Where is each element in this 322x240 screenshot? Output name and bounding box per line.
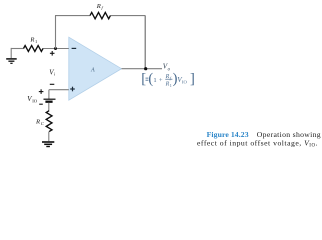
- svg-text:IO: IO: [32, 99, 38, 104]
- battery VIO plate + (long): [44, 98, 56, 100]
- wire: corner down to battery: [48, 90, 50, 99]
- battery VIO plate - (short thick): [45, 101, 52, 103]
- svg-text:i: i: [54, 72, 56, 77]
- resistor RC: [46, 111, 52, 132]
- svg-text:[: [: [141, 71, 146, 87]
- wire: battery to RC: [48, 103, 50, 111]
- svg-text:effect of input offset voltage: effect of input offset voltage, VIO.: [197, 138, 318, 148]
- svg-text:C: C: [41, 121, 45, 126]
- svg-text:A: A: [90, 68, 95, 74]
- Vi polarity +: [50, 51, 55, 56]
- svg-text:1: 1: [153, 77, 156, 84]
- op-amp inverting input marker -: [72, 47, 77, 49]
- wire: RC to ground: [48, 132, 50, 142]
- battery + label: [39, 89, 44, 94]
- svg-text:f: f: [170, 75, 172, 80]
- svg-text:R: R: [29, 37, 34, 44]
- svg-text:]: ]: [190, 71, 195, 87]
- svg-text:+: +: [159, 77, 163, 84]
- svg-text:R: R: [96, 3, 101, 10]
- resistor Rf: [90, 12, 110, 18]
- wire: output: [122, 68, 163, 70]
- svg-text:1: 1: [170, 83, 172, 88]
- op-amp U1: [69, 37, 122, 100]
- wire: left ground stem: [10, 48, 12, 58]
- wire: top horizontal feedback: [55, 15, 145, 17]
- ground (left): [6, 59, 17, 63]
- svg-text:o: o: [168, 67, 171, 72]
- node junction dot (inverting input node): [54, 47, 57, 50]
- ground (bottom): [42, 142, 54, 147]
- wire: right vertical feedback drop: [144, 16, 146, 69]
- Vi polarity -: [50, 83, 55, 85]
- svg-text:R: R: [35, 119, 40, 126]
- output junction dot: [144, 67, 147, 70]
- wire: non-inverting input horizontal: [49, 89, 69, 91]
- formula [=(1+Rf/R1)VIO]: [141, 71, 195, 88]
- battery - label: [39, 103, 43, 105]
- svg-text:1: 1: [35, 39, 37, 44]
- op-amp non-inverting input marker +: [70, 87, 75, 92]
- svg-text:IO: IO: [182, 79, 188, 84]
- resistor R1: [24, 46, 43, 52]
- svg-text:f: f: [102, 5, 104, 10]
- wire: left input horizontal: [11, 48, 69, 50]
- wire: vertical up from node: [55, 16, 57, 49]
